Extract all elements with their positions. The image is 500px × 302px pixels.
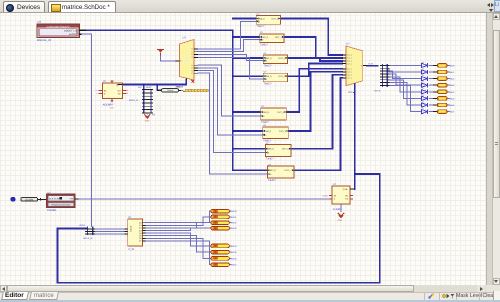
wire diode D6 to resistor R6	[429, 97, 437, 99]
svg-text:GND: GND	[338, 219, 343, 222]
wire branch to U4 pin1	[233, 36, 260, 38]
pin U2 Y2	[194, 53, 198, 55]
ground below U12	[110, 98, 115, 109]
svg-text:IN6_0: IN6_0	[268, 148, 275, 151]
wire RP1 pin7 to diode D7	[388, 83, 422, 105]
pin U11 D0	[342, 54, 346, 56]
svg-text:I?_R: I?_R	[368, 63, 373, 66]
gate U9 (2-input logic block)	[266, 145, 292, 157]
resistor R5	[433, 90, 447, 94]
pin U11 D2	[342, 60, 346, 62]
wire LED DS5 to net label	[229, 245, 230, 247]
svg-text:VCC►: VCC►	[322, 194, 328, 197]
diode DS2 with resistor (bottom row)	[211, 215, 229, 219]
junction dots on distribution bus	[232, 29, 234, 31]
svg-text:D?: D?	[422, 81, 424, 84]
pin U13 right red stubs	[350, 195, 353, 197]
svg-text:D?: D?	[422, 94, 424, 97]
svg-text:Y0: Y0	[191, 48, 193, 51]
pin U1 SOUT	[79, 33, 82, 35]
wire branch to U7 pin1	[233, 111, 261, 113]
diode D8 (LED)	[421, 107, 427, 114]
resistor R8	[433, 110, 447, 114]
wire resistor R5 to net label	[447, 91, 450, 93]
svg-text:IN4_0: IN4_0	[263, 111, 270, 114]
pin U2 Y5	[194, 67, 198, 69]
diode DS4 with resistor (bottom row)	[211, 226, 229, 230]
gate U3 (2-input logic block)	[256, 16, 280, 25]
svg-text:U?: U?	[346, 43, 350, 46]
wire P2 pin2 to U14 input 2	[93, 231, 125, 233]
wire U2 mux out7 to U9 pin2	[198, 71, 266, 153]
svg-text:MCLK_R: MCLK_R	[129, 99, 138, 102]
wire branch to U6 pin1	[233, 75, 263, 77]
transistor U14 output driver IC	[128, 219, 143, 246]
gate U5 (2-input logic block)	[263, 55, 287, 64]
wire U9 output to U11 mux input G	[290, 75, 342, 149]
svg-text:OUT_0: OUT_0	[271, 17, 279, 20]
wire RP1 pin5 to diode D5	[388, 77, 422, 92]
switch SW1 pads (8 squares)	[185, 89, 208, 91]
svg-text:D?: D?	[422, 87, 424, 90]
gate U6 (2-input logic block)	[263, 73, 287, 82]
pin U13 Q (top right)	[350, 188, 355, 190]
svg-text:CLK0B?: CLK0B?	[333, 208, 342, 211]
diode D4 (LED)	[421, 81, 427, 88]
wire branch to U10 pin1	[233, 169, 268, 170]
svg-text:DA6_0: DA6_0	[347, 74, 352, 77]
wire U4 output to U11 mux input B	[284, 37, 342, 58]
ground below U13	[338, 213, 345, 222]
pin U2 Y4	[194, 64, 198, 66]
svg-text:&: &	[182, 55, 189, 65]
svg-text:DA5_0: DA5_0	[347, 71, 352, 74]
diode D1 (LED)	[421, 61, 427, 68]
wire RP1 pin3 to diode D3	[388, 71, 422, 78]
svg-text:IN5_0: IN5_0	[265, 130, 272, 133]
svg-text:OUT_1: OUT_1	[275, 36, 283, 39]
svg-text:RES?: RES?	[146, 86, 152, 89]
wire LED DS8 to net label	[229, 264, 230, 266]
pin U14 right stubs	[143, 223, 146, 241]
svg-text:IN2_0: IN2_0	[266, 57, 273, 60]
pin U14 left stubs	[125, 228, 128, 230]
pin U11 D3	[342, 63, 346, 65]
svg-text:D?: D?	[422, 100, 424, 103]
pin U2 Y6	[194, 70, 198, 72]
svg-text:wD0: wD0	[450, 64, 455, 67]
wire U1 SOUT down left side to P2 header	[81, 34, 91, 226]
svg-text:D?: D?	[422, 67, 424, 70]
svg-text:GND: GND	[145, 119, 150, 122]
svg-text:CLK0B1: CLK0B1	[47, 209, 57, 212]
wire resistor R8 to net label	[447, 111, 450, 113]
resistor network RN1 (vertical ladder)	[142, 89, 153, 113]
svg-text:DA4_0: DA4_0	[347, 68, 352, 71]
wire resistor R2 to net label	[447, 71, 450, 73]
wire U2 mux out1 to U3 pin2	[198, 21, 256, 49]
diode DS6 with resistor (bottom row)	[211, 250, 229, 254]
component U1 Configurable Digital IO instrument	[37, 24, 79, 38]
svg-text:DA1_0: DA1_0	[347, 57, 352, 60]
wire LED DS1 to net label	[229, 210, 230, 212]
wire U8 output to U11 mux input F	[287, 72, 342, 131]
svg-text:74HC?: 74HC?	[257, 25, 265, 28]
gate U8 (2-input logic block)	[263, 127, 289, 139]
resistor pack RP1 (8-pin vertical)	[380, 64, 389, 87]
pin U11 D6	[342, 74, 346, 76]
wire resistor R6 to net label	[447, 97, 450, 99]
wire diode D7 to resistor R7	[429, 104, 437, 106]
wire branch down to resistor ladder RN1	[143, 85, 145, 89]
wire U14 pin6 to LED DS6	[146, 236, 211, 252]
pin U11 select stub	[354, 84, 356, 86]
diode D7 (LED)	[421, 100, 427, 107]
crystal Y1	[157, 89, 185, 93]
svg-text:&: &	[155, 101, 163, 112]
wire U5 output to U11 mux input C	[287, 58, 342, 61]
svg-text:wDOUT7..0: wDOUT7..0	[64, 29, 77, 32]
gate U7 (2-input logic block)	[261, 108, 287, 120]
svg-text:wD3: wD3	[450, 84, 455, 87]
svg-text:GND: GND	[110, 107, 115, 110]
wire resistor R1 to net label	[447, 64, 450, 66]
svg-text:wIO0: wIO0	[231, 210, 237, 213]
svg-text:Y4: Y4	[191, 64, 193, 67]
wire LED DS7 to net label	[229, 257, 230, 259]
svg-text:OU: OU	[345, 194, 349, 197]
wire U2 mux out8 to U10 pin2	[198, 73, 268, 174]
pin U12 in- (left) red stubs	[99, 89, 103, 91]
svg-text:Y7: Y7	[191, 72, 193, 75]
svg-text:FG: FG	[70, 198, 73, 201]
svg-text:MCLK: MCLK	[130, 225, 133, 231]
connector P2 (3-pin vertical pack)	[85, 226, 95, 235]
svg-text:ADCMP?: ADCMP?	[103, 103, 114, 106]
wire P2 pin3 to U14 input 3	[93, 233, 125, 235]
wire branch to U8 pin1	[233, 130, 263, 132]
wire branch down to crystal Y1	[157, 85, 161, 91]
svg-text:wIO7: wIO7	[231, 264, 237, 267]
power VCC bar symbol	[157, 50, 164, 56]
svg-text:OUT_2: OUT_2	[278, 57, 286, 60]
svg-text:DA3_0: DA3_0	[347, 62, 352, 65]
wire P2 pin1 to U14 input 1	[93, 228, 125, 230]
wire U14 pin2 to LED DS2	[146, 217, 211, 225]
svg-text:wIO1: wIO1	[231, 216, 237, 219]
svg-text:74HC?: 74HC?	[266, 157, 274, 160]
wire LED DS6 to net label	[229, 251, 230, 253]
svg-text:74HC?: 74HC?	[268, 179, 276, 182]
wire LED DS2 to net label	[229, 216, 230, 218]
diode DS3 with resistor (bottom row)	[211, 221, 229, 225]
svg-text:DA7_0: DA7_0	[347, 77, 352, 80]
svg-text:74HC?: 74HC?	[264, 83, 272, 86]
svg-text:OUT_3: OUT_3	[278, 75, 286, 78]
svg-text:Frequency Generator: Frequency Generator	[51, 204, 70, 207]
wire RP1 pin1 to diode D1	[388, 64, 422, 66]
junction dots on clock net	[354, 173, 356, 175]
svg-text:Y6: Y6	[191, 69, 193, 72]
svg-text:wIO6: wIO6	[231, 257, 237, 260]
diode D5 (LED)	[421, 87, 427, 94]
wire resistor R4 to net label	[447, 84, 450, 86]
svg-text:D?: D?	[422, 74, 424, 77]
pin U11 D4	[342, 68, 346, 70]
svg-text:DA0_0: DA0_0	[347, 54, 352, 57]
resistor R2	[433, 70, 447, 74]
svg-text:CLK 1k 50: CLK 1k 50	[49, 198, 60, 201]
svg-text:Y3: Y3	[191, 56, 193, 59]
wire U14 pin4 to LED DS4	[146, 228, 211, 230]
wire U1 DOUT bus: horizontal from U1 pin then vertical distribution	[86, 30, 233, 169]
wire mux U2 enable to U12 comparator output	[123, 80, 187, 85]
svg-text:IN7_0: IN7_0	[270, 169, 277, 172]
wire branch to U5 pin1	[233, 57, 263, 59]
wire RP1 pin8 to diode D8	[388, 85, 422, 111]
svg-text:U?: U?	[183, 37, 187, 40]
op-amp U11 analog multiplexer (trapezoid)	[346, 46, 363, 86]
svg-text:►OUT: ►OUT	[69, 33, 77, 36]
svg-text:wD1: wD1	[450, 71, 455, 74]
wire U7 output to U11 mux input E	[286, 69, 342, 112]
junction dots on comparator net	[156, 84, 158, 86]
wire U2 mux out3 to U5 pin2	[198, 54, 263, 60]
svg-text:Configurable Digital IO: Configurable Digital IO	[46, 25, 69, 28]
wire U14 pin7 to LED DS7	[146, 238, 211, 258]
svg-text:I?_M: I?_M	[128, 248, 134, 251]
diode DS8 with resistor (bottom row)	[211, 263, 229, 267]
resistor R7	[433, 103, 447, 107]
svg-text:wD4: wD4	[450, 91, 455, 94]
svg-text:wIO5: wIO5	[231, 251, 237, 254]
wire VCC power to mux U2 select pin	[161, 55, 176, 61]
wire U3 output to U11 mux input A	[280, 19, 342, 55]
diode D3 (LED)	[421, 74, 427, 81]
diode DS1 with resistor (bottom row)	[211, 209, 229, 213]
svg-text:MCLK_M: MCLK_M	[83, 237, 92, 240]
wire clock feedback loop around sheet bottom to P2	[57, 174, 379, 283]
wire resistor R7 to net label	[447, 104, 450, 106]
gate U10 (2-input logic block)	[268, 166, 294, 178]
svg-text:IN0_0: IN0_0	[259, 17, 266, 20]
pin U2 Y1	[194, 51, 198, 53]
wire RP1 pin4 to diode D4	[388, 74, 422, 85]
svg-text:IN3_0: IN3_0	[266, 75, 273, 78]
wire U10 output to U11 mux input H	[294, 78, 342, 170]
pin XMG1 output	[75, 198, 79, 200]
svg-text:wIO4: wIO4	[231, 245, 237, 248]
op-amp U2 analog multiplexer (trapezoid)	[180, 40, 194, 81]
wire U11 mux output to RP1 resistor pack	[367, 65, 378, 67]
status bar with editor tabs	[0, 292, 500, 300]
wire LED DS3 to net label	[229, 222, 230, 224]
pin U11 D7	[342, 77, 346, 79]
pin U2 Y3	[194, 56, 198, 58]
svg-text:74HC?: 74HC?	[264, 64, 272, 67]
diode D2 (LED)	[421, 67, 427, 74]
pin U1 DOUT	[79, 29, 86, 31]
svg-text:Y1: Y1	[191, 51, 193, 54]
svg-text:wD2: wD2	[450, 78, 455, 81]
wire branch to U3 pin1	[233, 18, 256, 20]
wire RP1 pin6 to diode D6	[388, 80, 422, 99]
component XMG1 Frequency Generator instrument	[47, 194, 75, 207]
svg-text:wD7: wD7	[450, 111, 455, 114]
svg-text:DIGITAL_IO: DIGITAL_IO	[37, 39, 51, 42]
svg-text:wIO2: wIO2	[231, 222, 237, 225]
svg-text:TQ: TQ	[117, 92, 120, 95]
svg-text:D?: D?	[422, 107, 424, 110]
wire diode D5 to resistor R5	[429, 91, 437, 93]
svg-text:wD5: wD5	[450, 97, 455, 100]
svg-text:1.0MHz: 1.0MHz	[167, 89, 174, 92]
svg-text:Q1►: Q1►	[343, 188, 348, 191]
svg-text:V+: V+	[96, 89, 98, 92]
svg-text:Y2: Y2	[191, 53, 193, 56]
gate U4 (2-input logic block)	[260, 34, 284, 43]
wire LED DS4 to net label	[229, 227, 230, 229]
wire U2 mux out6 to U8 pin2	[198, 68, 263, 135]
vertical scrollbar	[492, 13, 500, 285]
pin U11 D5	[342, 71, 346, 73]
wire U14 pin3 to LED DS3	[146, 223, 211, 228]
pin U12 output (top right)	[117, 84, 122, 86]
wire resistor R3 to net label	[447, 78, 450, 80]
wire U2 mux out4 to U6 pin2	[198, 57, 263, 79]
wire branch to U9 pin1	[233, 148, 266, 150]
diode D6 (LED)	[421, 94, 427, 101]
svg-text:74HC?: 74HC?	[260, 43, 268, 46]
pin U2 Y0	[194, 48, 198, 50]
diode DS5 with resistor (bottom row)	[211, 244, 229, 248]
ground below RN1	[144, 113, 150, 122]
diode DS7 with resistor (bottom row)	[211, 257, 229, 261]
resistor R1	[433, 64, 447, 68]
svg-text:M?_R: M?_R	[375, 89, 381, 92]
svg-text:OU: OU	[117, 89, 121, 92]
wire diode D8 to resistor R8	[429, 111, 437, 113]
svg-text:IN1_0: IN1_0	[262, 36, 269, 39]
wire U6 output to U11 mux input D	[287, 64, 342, 77]
svg-text:OUT_7: OUT_7	[285, 169, 293, 172]
wire U14 pin8 to LED DS8	[146, 241, 211, 265]
pin U11 D1	[342, 57, 346, 59]
horizontal scrollbar	[0, 285, 486, 292]
wire U14 pin5 to LED DS5	[146, 233, 211, 246]
svg-text:wD6: wD6	[450, 104, 455, 107]
node input port (blue circle)	[11, 197, 15, 201]
wire XMG1 frequency generator output to U13 input	[79, 198, 329, 200]
svg-text:TQ: TQ	[345, 198, 348, 201]
svg-text:DA2_0: DA2_0	[347, 60, 352, 63]
pin U2 select	[176, 60, 180, 62]
pin U12 right red stubs	[123, 89, 127, 91]
resistor R4	[433, 83, 447, 87]
pin U13 bottom stub	[340, 204, 342, 212]
svg-text:VCC►: VCC►	[348, 91, 355, 94]
pin U2 ground stub	[185, 79, 187, 80]
svg-text:Y5: Y5	[191, 67, 193, 70]
pin U11 output	[363, 65, 367, 67]
svg-text:1k 50%: 1k 50%	[25, 198, 34, 201]
wire U2 mux out5 to U7 pin2	[198, 65, 261, 116]
svg-text:U?: U?	[38, 20, 42, 24]
resistor R3	[433, 77, 447, 81]
no-ERC marker red cross	[192, 80, 195, 83]
svg-text:OUT_6: OUT_6	[282, 148, 290, 151]
wire U2 mux out2 to U4 pin2	[198, 40, 260, 52]
svg-text:OUT_4: OUT_4	[277, 111, 285, 114]
svg-text:SW?: SW?	[176, 86, 182, 89]
svg-text:74HC?: 74HC?	[261, 121, 269, 124]
power VCC above U12	[110, 81, 113, 83]
wire diode D3 to resistor R3	[429, 78, 437, 80]
pin U13 left red stubs	[329, 195, 332, 197]
op-amp U12 comparator IC	[103, 83, 123, 98]
transistor U13 clock divider IC	[332, 186, 350, 204]
top document tab bar	[0, 0, 500, 13]
wire diode D4 to resistor R4	[429, 84, 437, 86]
svg-text:VR? R: VR? R	[79, 224, 86, 227]
svg-text:wIO3: wIO3	[231, 227, 237, 230]
pin U2 Y7	[194, 72, 198, 74]
resistor R6	[433, 97, 447, 101]
svg-text:OUT_5: OUT_5	[279, 130, 287, 133]
svg-text:D?: D?	[422, 61, 424, 64]
wire diode D2 to resistor R2	[429, 71, 437, 73]
wire U11 mux select vertical down to U13 clock pin	[354, 85, 356, 190]
capacitor C1 (input pill element)	[21, 198, 47, 202]
wire U14 pin1 to LED DS1	[146, 211, 211, 223]
wire diode D1 to resistor R1	[429, 64, 437, 66]
wire RP1 pin2 to diode D2	[388, 68, 422, 72]
